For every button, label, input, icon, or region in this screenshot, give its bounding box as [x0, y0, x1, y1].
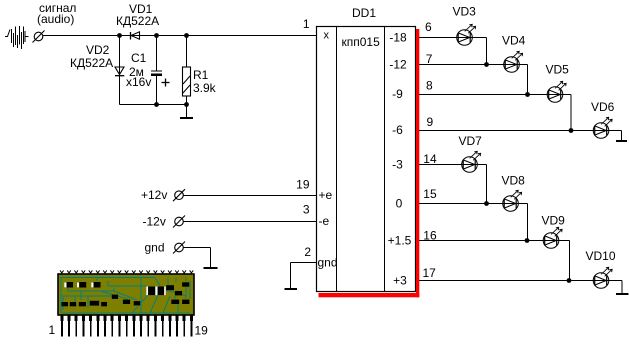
svg-text:15: 15: [423, 187, 437, 201]
svg-text:VD7: VD7: [459, 134, 483, 148]
svg-text:-9: -9: [392, 87, 403, 101]
svg-text:VD5: VD5: [546, 63, 570, 77]
svg-text:+e: +e: [319, 188, 333, 202]
capacitor C1 2м x16v: [126, 36, 170, 105]
node: junction VD3/pin7: [484, 62, 489, 67]
connector: signal input terminal: [33, 31, 45, 43]
node: junction VD4/pin8: [525, 92, 530, 97]
LED VD8: [503, 190, 522, 211]
svg-text:7: 7: [426, 52, 433, 66]
svg-text:+3: +3: [393, 274, 407, 288]
IC left pin function labels: [318, 188, 338, 270]
LED VD3: [457, 24, 476, 45]
svg-text:gnd: gnd: [318, 256, 338, 270]
node C junction dot (R1 top): [184, 33, 189, 38]
chip black cells: [62, 282, 190, 306]
wire: -12v to pin 3: [184, 221, 317, 223]
svg-text:19: 19: [296, 178, 310, 192]
chip body: [58, 274, 194, 315]
wire: VD8 to pin 16 row: [519, 204, 528, 241]
svg-text:3.9k: 3.9k: [193, 81, 217, 95]
svg-text:16: 16: [423, 229, 437, 243]
wire: gnd terminal to ground: [184, 248, 211, 268]
svg-text:-12v: -12v: [143, 215, 166, 229]
svg-text:VD8: VD8: [502, 174, 526, 188]
wire: pin 15 row: [419, 203, 503, 205]
svg-text:C1: C1: [131, 51, 147, 65]
svg-text:VD10: VD10: [586, 249, 616, 263]
node: junction dot C1 bottom: [154, 102, 159, 107]
svg-text:9: 9: [427, 115, 434, 129]
IC output level labels: [388, 31, 412, 288]
ground: pin 2: [285, 288, 298, 290]
svg-text:VD3: VD3: [453, 5, 477, 19]
node: junction VD9/pin17: [567, 278, 572, 283]
svg-text:x16v: x16v: [126, 75, 151, 89]
wire: VD10 to ground: [609, 281, 622, 294]
wire: VD6 to ground: [609, 131, 622, 141]
wire: pin 7 row: [419, 64, 504, 66]
svg-text:gnd: gnd: [145, 241, 165, 255]
svg-text:+1.5: +1.5: [388, 234, 412, 248]
wire: pin 14 row: [419, 164, 462, 166]
svg-text:0: 0: [396, 197, 403, 211]
wire: pin 16 row: [419, 240, 543, 242]
wire: VD7 to pin 15 row: [478, 165, 487, 204]
svg-text:DD1: DD1: [352, 6, 376, 20]
svg-text:-6: -6: [392, 123, 403, 137]
wire: pin 9 row: [419, 130, 593, 132]
ground: VD6: [616, 140, 627, 142]
svg-text:КД522А: КД522А: [70, 56, 113, 70]
svg-text:17: 17: [423, 266, 437, 280]
svg-text:8: 8: [426, 79, 433, 93]
chip white pads: [64, 283, 165, 296]
svg-text:-3: -3: [392, 158, 403, 172]
node: junction VD7/pin15: [484, 201, 489, 206]
svg-text:-e: -e: [319, 214, 330, 228]
svg-text:19: 19: [195, 324, 209, 338]
connector: -12v terminal: [173, 216, 185, 228]
wire: VD4 to pin 8 row: [520, 65, 528, 95]
wire: signal input to IC pin 1: [43, 35, 317, 37]
LED VD6: [593, 117, 612, 138]
wire: pin 17 row: [419, 280, 593, 282]
node: junction VD5/pin9: [569, 128, 574, 133]
svg-text:VD9: VD9: [542, 214, 566, 228]
svg-text:1: 1: [49, 323, 56, 337]
svg-text:VD4: VD4: [502, 34, 526, 48]
wire: VD5 to pin 9 row: [563, 95, 571, 131]
connector: gnd terminal: [173, 242, 185, 254]
connector: +12v terminal: [173, 189, 185, 201]
LED VD10: [593, 267, 612, 288]
wire: VD3 to pin 7 row: [473, 38, 487, 65]
chip photo bottom legs: [60, 315, 193, 337]
wire: pin 8 row: [419, 94, 547, 96]
svg-text:1: 1: [303, 17, 310, 31]
resistor R1 3.9k: [183, 36, 217, 105]
wire: +12v to pin 19: [184, 195, 317, 197]
svg-text:-12: -12: [389, 58, 407, 72]
chip photo top pins: [60, 270, 193, 274]
IC red shadow bottom: [319, 293, 420, 297]
diode VD1 КД522А: [116, 2, 159, 40]
svg-text:-18: -18: [389, 31, 407, 45]
svg-text:VD2: VD2: [86, 43, 110, 57]
IC DD1 кпп015 box: [317, 6, 416, 292]
LED VD9: [543, 227, 562, 248]
node: junction VD8/pin16: [525, 238, 530, 243]
svg-text:6: 6: [425, 20, 432, 34]
LED VD7: [462, 151, 481, 172]
diode VD2 КД522А: [70, 36, 124, 105]
svg-text:кпп015: кпп015: [342, 35, 381, 49]
node B junction dot (C1 top): [154, 33, 159, 38]
ground: gnd terminal: [204, 267, 218, 269]
svg-text:(audio): (audio): [37, 12, 74, 26]
wire: pin 2 to ground: [291, 263, 317, 289]
svg-text:3: 3: [303, 203, 310, 217]
node: сигнал (audio) label: [37, 1, 76, 26]
wire: pin 6 row: [419, 37, 457, 39]
IC chip photo: [58, 274, 194, 315]
ground: VD10: [616, 293, 629, 295]
node: junction dot R1 bottom: [184, 102, 189, 107]
wire: VD9 to pin 17 row: [559, 241, 570, 281]
svg-text:КД522А: КД522А: [116, 14, 159, 28]
signal source waveform: [5, 26, 29, 49]
svg-text:x: x: [324, 30, 330, 42]
svg-text:VD6: VD6: [591, 100, 615, 114]
LED VD4: [504, 51, 523, 72]
node A junction dot: [117, 33, 122, 38]
svg-text:2: 2: [304, 245, 311, 259]
svg-text:R1: R1: [193, 68, 209, 82]
svg-text:14: 14: [423, 152, 437, 166]
ground below R1: [180, 105, 193, 119]
svg-text:+12v: +12v: [141, 188, 167, 202]
IC red shadow right: [416, 29, 419, 297]
LED VD5: [547, 81, 566, 102]
chip teal traces: [61, 278, 190, 314]
wire: bottom rail of input filter: [120, 104, 187, 106]
